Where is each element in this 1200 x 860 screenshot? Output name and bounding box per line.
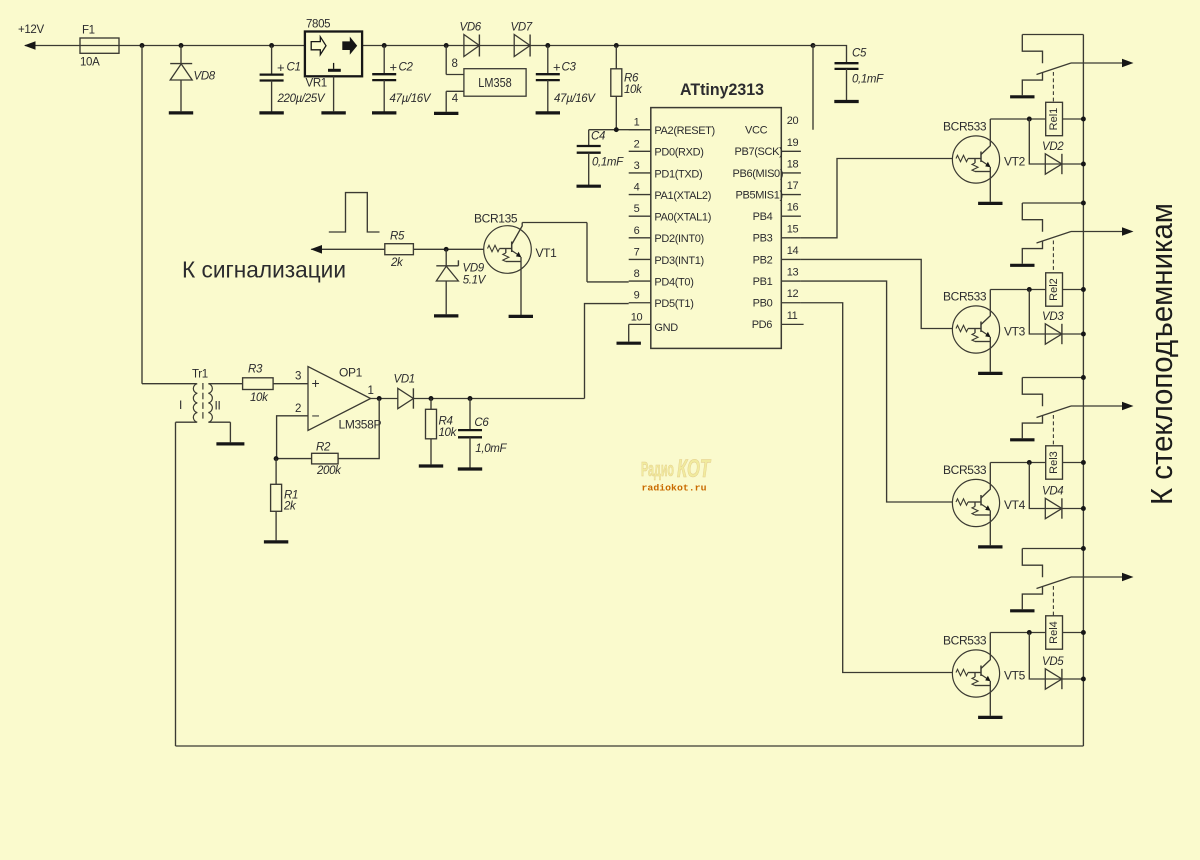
svg-text:ATtiny2313: ATtiny2313: [680, 81, 764, 99]
svg-text:1,0mF: 1,0mF: [475, 443, 507, 455]
svg-text:VR1: VR1: [306, 78, 327, 90]
svg-text:200k: 200k: [316, 465, 342, 477]
svg-text:BCR533: BCR533: [943, 634, 987, 648]
svg-text:47µ/16V: 47µ/16V: [390, 93, 432, 105]
svg-text:BCR135: BCR135: [474, 211, 518, 225]
svg-text:VD2: VD2: [1042, 141, 1064, 153]
svg-text:PA0(XTAL1): PA0(XTAL1): [654, 212, 711, 224]
svg-text:PB6(MIS0): PB6(MIS0): [733, 168, 784, 180]
svg-text:R2: R2: [316, 442, 331, 454]
svg-text:7805: 7805: [306, 19, 330, 31]
svg-text:К стеклоподъемникам: К стеклоподъемникам: [1144, 203, 1179, 505]
svg-text:4: 4: [634, 182, 640, 194]
svg-text:11: 11: [787, 310, 798, 322]
svg-text:−: −: [312, 407, 320, 423]
svg-text:14: 14: [787, 245, 799, 257]
svg-text:VD4: VD4: [1042, 486, 1063, 498]
svg-text:+: +: [553, 60, 560, 75]
svg-text:VD6: VD6: [460, 22, 482, 34]
svg-text:VT4: VT4: [1004, 498, 1026, 512]
svg-text:PB4: PB4: [753, 211, 773, 223]
svg-text:C5: C5: [852, 48, 867, 60]
svg-text:LM358P: LM358P: [339, 418, 382, 432]
svg-text:9: 9: [634, 290, 640, 302]
svg-text:+: +: [277, 60, 284, 75]
svg-text:15: 15: [787, 223, 799, 235]
svg-text:Tr1: Tr1: [192, 369, 208, 381]
svg-text:VT2: VT2: [1004, 155, 1026, 169]
svg-text:3: 3: [634, 160, 640, 172]
svg-text:2k: 2k: [390, 257, 404, 269]
svg-text:PD0(RXD): PD0(RXD): [654, 147, 703, 159]
svg-text:BCR533: BCR533: [943, 290, 987, 304]
svg-text:GND: GND: [654, 322, 678, 334]
svg-text:8: 8: [634, 268, 640, 280]
svg-text:R3: R3: [248, 363, 263, 375]
svg-text:PB5MIS1): PB5MIS1): [736, 189, 783, 201]
svg-text:LM358: LM358: [478, 75, 512, 90]
svg-text:PA2(RESET): PA2(RESET): [654, 125, 714, 137]
svg-text:К сигнализации: К сигнализации: [182, 257, 346, 283]
svg-text:10: 10: [631, 311, 643, 323]
svg-text:8: 8: [452, 58, 458, 70]
svg-text:BCR533: BCR533: [943, 463, 987, 477]
svg-text:PB0: PB0: [753, 298, 773, 310]
svg-text:220µ/25V: 220µ/25V: [277, 93, 326, 105]
svg-text:Rel1: Rel1: [1048, 108, 1060, 131]
svg-text:PD6: PD6: [752, 319, 773, 331]
svg-text:Rel4: Rel4: [1048, 621, 1060, 644]
svg-text:PB2: PB2: [753, 254, 773, 266]
svg-text:7: 7: [634, 246, 640, 258]
svg-text:2: 2: [634, 138, 640, 150]
svg-text:VD1: VD1: [394, 374, 415, 386]
svg-text:PD2(INT0): PD2(INT0): [654, 233, 703, 245]
svg-text:R5: R5: [390, 231, 405, 243]
svg-text:18: 18: [787, 158, 799, 170]
svg-text:R6: R6: [624, 73, 639, 85]
svg-text:КОТ: КОТ: [677, 455, 712, 483]
svg-text:VT5: VT5: [1004, 669, 1026, 683]
svg-text:4: 4: [452, 93, 459, 105]
svg-text:F1: F1: [82, 25, 95, 37]
svg-text:C1: C1: [287, 62, 301, 74]
svg-text:1: 1: [368, 385, 374, 397]
svg-text:PD3(INT1): PD3(INT1): [654, 255, 703, 267]
svg-text:VD3: VD3: [1042, 311, 1064, 323]
svg-text:VCC: VCC: [745, 125, 768, 137]
svg-text:PD4(T0): PD4(T0): [654, 276, 693, 288]
svg-text:VD5: VD5: [1042, 656, 1064, 668]
svg-text:3: 3: [295, 371, 301, 383]
svg-text:PB3: PB3: [753, 233, 773, 245]
svg-text:10k: 10k: [250, 392, 269, 404]
svg-text:VD9: VD9: [463, 263, 485, 275]
svg-text:VD8: VD8: [194, 71, 216, 83]
svg-text:R4: R4: [439, 415, 453, 427]
svg-text:OP1: OP1: [339, 366, 363, 380]
svg-text:VT3: VT3: [1004, 325, 1026, 339]
svg-text:Rel2: Rel2: [1048, 278, 1060, 301]
svg-text:+12V: +12V: [18, 24, 44, 36]
svg-text:BCR533: BCR533: [943, 120, 987, 134]
svg-text:Радио: Радио: [641, 459, 674, 481]
svg-text:20: 20: [787, 115, 799, 127]
svg-text:5.1V: 5.1V: [463, 275, 487, 287]
svg-text:VT1: VT1: [536, 246, 558, 260]
svg-text:5: 5: [634, 203, 640, 215]
svg-text:13: 13: [787, 267, 799, 279]
svg-text:10k: 10k: [624, 84, 643, 96]
svg-text:Rel3: Rel3: [1048, 451, 1060, 474]
svg-text:10k: 10k: [439, 427, 458, 439]
svg-text:+: +: [390, 60, 397, 75]
svg-text:0,1mF: 0,1mF: [852, 74, 884, 86]
svg-text:PB1: PB1: [753, 276, 773, 288]
svg-text:12: 12: [787, 288, 799, 300]
svg-text:10A: 10A: [80, 57, 100, 69]
svg-text:2k: 2k: [283, 501, 297, 513]
svg-text:VD7: VD7: [511, 22, 533, 34]
svg-text:PA1(XTAL2): PA1(XTAL2): [654, 190, 711, 202]
svg-text:I: I: [179, 398, 182, 412]
svg-text:radiokot.ru: radiokot.ru: [642, 483, 707, 494]
svg-text:1: 1: [634, 117, 640, 129]
svg-text:C6: C6: [474, 417, 489, 429]
svg-text:PD1(TXD): PD1(TXD): [654, 168, 702, 180]
svg-text:C2: C2: [399, 62, 414, 74]
svg-text:6: 6: [634, 225, 640, 237]
svg-text:C4: C4: [591, 131, 605, 143]
svg-text:16: 16: [787, 202, 799, 214]
svg-text:17: 17: [787, 180, 799, 192]
svg-text:2: 2: [295, 403, 301, 415]
svg-text:C3: C3: [562, 62, 577, 74]
svg-text:19: 19: [787, 137, 799, 149]
svg-text:47µ/16V: 47µ/16V: [554, 93, 596, 105]
svg-text:II: II: [215, 399, 221, 413]
svg-text:0,1mF: 0,1mF: [592, 157, 624, 169]
svg-text:PD5(T1): PD5(T1): [654, 298, 693, 310]
svg-text:+: +: [312, 375, 320, 391]
svg-text:PB7(SCK): PB7(SCK): [735, 146, 783, 158]
